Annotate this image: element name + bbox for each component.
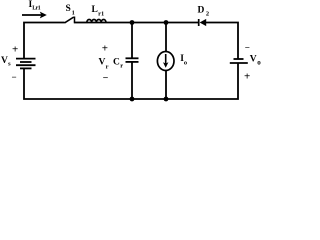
wire: current source branch upper <box>165 23 167 53</box>
node: bottom current-source junction <box>164 97 169 102</box>
inductor L_r1 <box>87 20 106 23</box>
battery V_o long plate (bottom) <box>230 62 248 64</box>
capacitor C_r bottom plate <box>126 61 139 63</box>
svg-text:D2: D2 <box>198 6 210 18</box>
wire: diode to top-right corner + right vertical upper <box>206 23 238 60</box>
wire: capacitor branch lower <box>131 62 133 99</box>
switch S1 blade <box>65 17 74 23</box>
wire: capacitor branch upper <box>131 23 133 59</box>
node: top current-source junction <box>164 20 169 25</box>
svg-text:Vo: Vo <box>250 54 261 66</box>
svg-text:−: − <box>12 72 17 82</box>
current arrow I_Lr1 <box>22 14 42 16</box>
current source I_o arrow <box>165 54 167 64</box>
wire: right vertical lower + bottom wire + left vertical lower <box>24 63 238 99</box>
svg-text:ILr1: ILr1 <box>29 0 41 12</box>
node: bottom capacitor junction <box>130 97 135 102</box>
capacitor C_r top plate <box>126 57 139 59</box>
svg-text:Vs: Vs <box>1 56 11 68</box>
battery V_o short plate (top) <box>234 58 244 60</box>
svg-text:+: + <box>12 44 18 56</box>
svg-text:S1: S1 <box>66 4 75 16</box>
svg-text:+: + <box>244 71 250 83</box>
wire: switch to inductor <box>74 22 88 24</box>
svg-text:Vr: Vr <box>99 58 109 71</box>
svg-text:Lr1: Lr1 <box>92 5 105 17</box>
svg-text:−: − <box>245 42 250 52</box>
svg-text:+: + <box>102 43 108 55</box>
svg-text:Cr: Cr <box>113 57 123 69</box>
battery V_s plate3 long <box>16 64 36 66</box>
diode D2 cathode bar <box>198 19 200 26</box>
svg-text:Io: Io <box>180 54 187 66</box>
svg-text:−: − <box>103 73 109 84</box>
wire: current source branch lower <box>165 71 167 100</box>
node: top capacitor junction <box>130 20 135 25</box>
battery V_s plate2 short <box>20 61 32 63</box>
switch S1 right post <box>74 17 76 23</box>
battery V_s plate4 short <box>20 67 32 69</box>
battery V_s plate1 long <box>16 58 36 60</box>
wire: inductor to diode <box>88 22 199 24</box>
diode D2 triangle <box>200 19 207 26</box>
wire: top-left horizontal + left vertical upper <box>24 23 65 59</box>
current source I_o circle <box>157 52 174 71</box>
